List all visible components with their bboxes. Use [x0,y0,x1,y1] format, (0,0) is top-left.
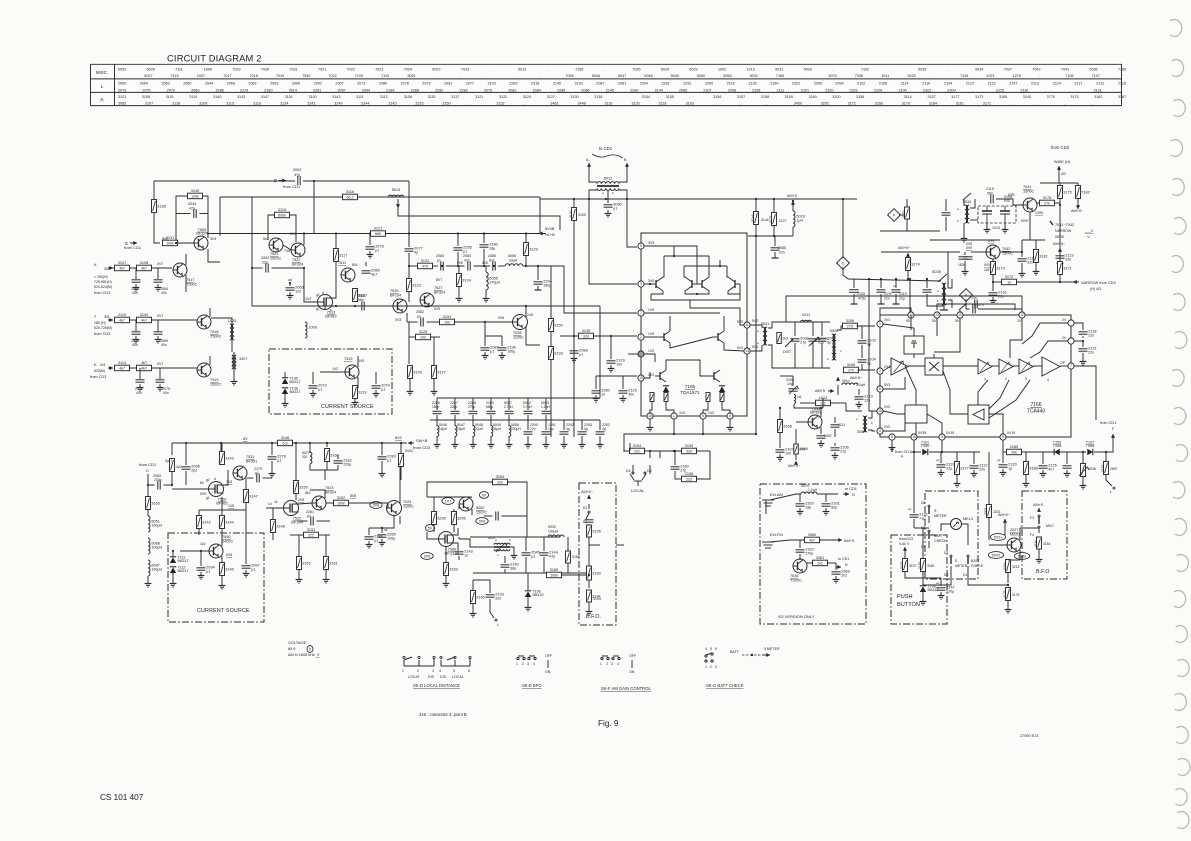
parts table frame [91,64,1122,105]
wire pin7 out [1074,366,1096,420]
svg-text:μ1: μ1 [374,539,378,543]
svg-text:3184: 3184 [1043,542,1051,546]
transformer 5012 [597,177,619,191]
inductor 5016 2.2uH [842,383,858,385]
resistor 1013 [816,396,831,406]
wire 2062 [252,267,263,269]
wire 7042 base [971,251,986,253]
svg-text:METER: METER [955,564,968,568]
wire ext am chain [765,500,767,514]
transistor 7511 BF324 [341,268,355,282]
junction node [313,180,315,182]
svg-text:3121: 3121 [118,95,126,99]
transformer 5025 [830,329,838,360]
svg-text:3100: 3100 [578,213,586,217]
svg-text:2116: 2116 [1020,88,1028,92]
svg-text:g1: g1 [206,496,210,500]
wire 7060 gate [427,532,438,539]
wire 3294 loop [427,482,493,497]
svg-text:2092: 2092 [314,82,322,86]
capacitor 2139 2n2 [486,593,504,601]
svg-text:2k2: 2k2 [634,449,640,453]
wire 3175 to 7041 [1059,210,1061,248]
switch 5034 arrow [963,193,971,200]
wire pushbutton feed [913,452,915,505]
svg-text:40n: 40n [136,391,142,395]
svg-text:7519: 7519 [210,378,218,382]
wire tca top loop caps [937,304,1015,310]
svg-text:Ext.FM: Ext.FM [770,532,783,537]
svg-text:3189: 3189 [550,568,558,572]
wire 2115 to 7041 [996,199,1023,205]
pin 14 hatched [638,351,644,357]
capacitor 2076 40n [139,368,141,379]
svg-text:3156: 3156 [846,319,854,323]
svg-text:2290: 2290 [630,88,638,92]
svg-text:.: . [489,67,490,71]
svg-text:AM+S: AM+S [844,539,855,543]
svg-text:D3: D3 [944,573,948,577]
svg-text:27p: 27p [800,341,806,345]
svg-text:3202: 3202 [821,102,829,106]
wire 7035 wiring [796,421,808,423]
wire diode row1 [911,451,921,453]
svg-text:BF194: BF194 [390,294,401,298]
resistor 3127 110 [432,366,446,379]
push button upper box [925,491,978,579]
svg-text:2104: 2104 [944,82,952,86]
bracket to CD1 [592,154,623,158]
svg-text:1502C: 1502C [476,511,487,515]
diamond near 756 [837,257,850,270]
resistor 3361 2k2 [813,556,828,566]
wire 5035 bottom gnd [943,305,945,310]
svg-text:330: 330 [686,449,692,453]
svg-text:1V9: 1V9 [648,308,654,312]
wire 7522 gate [266,507,283,509]
svg-text:2112: 2112 [1096,82,1104,86]
resistor 3145 [220,563,234,576]
svg-text:1n2: 1n2 [295,290,301,294]
svg-text:5056: 5056 [508,254,516,258]
svg-text:4g: 4g [602,427,606,431]
resistor 3180 [921,559,926,572]
svg-text:270p: 270p [805,552,813,556]
pin 4 tca [877,428,883,434]
svg-text:.: . [539,74,540,78]
svg-text:(H) 4/3: (H) 4/3 [1090,287,1101,291]
svg-text:3185: 3185 [999,95,1007,99]
capacitor 2097 u1 [242,564,260,572]
svg-text:100μ: 100μ [507,350,515,354]
resistor 3175 [1058,186,1072,199]
pin 13 [744,348,750,354]
wire pin13 to 5031 [750,345,762,351]
svg-text:1: 1 [600,662,602,666]
pin 7 [638,310,644,316]
svg-text:22p: 22p [262,261,268,265]
ground [155,336,162,343]
svg-text:BF982: BF982 [325,313,336,318]
svg-text:1: 1 [879,322,881,326]
pin 16 [647,413,653,419]
pin 6 tca [877,386,883,392]
svg-text:.: . [832,67,833,71]
svg-text:from CD3: from CD3 [1051,145,1070,150]
svg-text:27p: 27p [530,427,536,431]
svg-text:.: . [618,95,619,99]
ground [155,284,162,291]
svg-text:725-981(H): 725-981(H) [94,280,112,284]
svg-text:3360: 3360 [808,533,816,537]
svg-text:36μH: 36μH [493,427,502,431]
svg-text:2n2: 2n2 [495,597,501,601]
svg-text:4k7: 4k7 [141,318,147,322]
svg-text:7590: 7590 [222,535,230,539]
capacitor 2147 220u [937,586,955,594]
svg-text:0V5: 0V5 [200,492,206,496]
svg-text:3127: 3127 [547,95,555,99]
svg-text:+1μ: +1μ [919,517,925,521]
svg-text:fromCD3: fromCD3 [899,537,913,541]
svg-text:520(M): 520(M) [94,369,105,373]
svg-text:3179: 3179 [1003,590,1007,598]
svg-text:TDA1571: TDA1571 [680,390,700,395]
svg-text:39k: 39k [1011,450,1017,454]
wire local net [649,450,651,452]
wire emitter 7505 down [208,249,220,262]
transistor 7036 TS02C [793,559,807,573]
wire collector 7517 up [185,254,187,265]
svg-text:2μ2: 2μ2 [176,465,182,469]
wire 756 riser down [755,236,757,434]
svg-text:0V5: 0V5 [358,359,364,363]
svg-text:2322: 2322 [923,88,931,92]
svg-text:4: 4 [533,662,535,666]
svg-text:2044: 2044 [205,82,213,86]
capacitor 2094 u1 [197,566,215,574]
ground pin8 [891,440,893,444]
svg-text:31u6: 31u6 [761,218,769,222]
switch diagram SK-E [517,656,536,660]
svg-text:d: d [214,477,216,481]
svg-text:3159: 3159 [785,95,793,99]
svg-text:2V: 2V [1062,318,1067,322]
wire tca pin12 top link [1021,310,1023,312]
svg-text:CS 101 407: CS 101 407 [100,793,144,802]
svg-text:2067: 2067 [335,82,343,86]
svg-text:3126: 3126 [413,371,421,375]
resistor interior 1 [650,393,654,402]
svg-text:3151: 3151 [285,95,293,99]
svg-text:12: 12 [1020,313,1024,317]
svg-text:.: . [1118,102,1119,106]
svg-text:3129: 3129 [529,248,537,252]
resistor 3142 100k [197,516,211,529]
svg-text:3117: 3117 [451,95,459,99]
svg-text:5046: 5046 [592,74,600,78]
svg-text:SK-E BFO: SK-E BFO [522,683,542,688]
svg-text:VOLTAGE: VOLTAGE [288,640,307,645]
svg-text:2V2: 2V2 [884,405,890,409]
svg-text:8V2: 8V2 [395,436,402,440]
svg-text:LOCAL: LOCAL [631,488,645,493]
resistor 3156b 222 [682,472,697,482]
svg-text:.: . [547,67,548,71]
svg-text:3179: 3179 [902,102,910,106]
capacitor 2278 u1 [268,455,286,463]
svg-text:BATT: BATT [934,534,944,538]
svg-text:.: . [1010,102,1011,106]
wire 3156 to pin1 [857,325,876,327]
svg-text:3115: 3115 [428,95,436,99]
svg-text:F4: F4 [1030,533,1034,537]
svg-text:SK-F AM GAIN CONTROL: SK-F AM GAIN CONTROL [601,686,651,691]
transformer 5037 [494,543,510,551]
svg-text:3085: 3085 [778,246,786,250]
svg-text:2110: 2110 [899,292,907,296]
svg-text:μ1: μ1 [579,353,583,357]
wire pin10 osc [966,304,970,309]
inductor 5087 100uH [148,560,162,576]
svg-text:1V8: 1V8 [228,504,234,508]
svg-text:3147: 3147 [249,495,257,499]
wire row3 [130,367,137,369]
svg-text:3175: 3175 [1063,191,1071,195]
svg-text:3118: 3118 [659,102,667,106]
svg-text:7024: 7024 [404,67,412,71]
resistor 3215 [1006,560,1011,573]
svg-text:5013: 5013 [392,188,400,192]
svg-text:7028: 7028 [513,331,521,335]
capacitor 2126 [1063,466,1072,468]
svg-text:3: 3 [432,669,434,673]
svg-text:56.2: 56.2 [347,195,354,199]
diode 7101 TV80 [921,441,930,456]
capacitor 2110 22u [892,290,901,292]
transistor 7505 BF324 [194,227,209,250]
svg-text:8k2: 8k2 [305,491,311,495]
svg-text:0V9: 0V9 [479,519,486,523]
svg-text:2: 2 [417,669,419,673]
svg-text:μ1: μ1 [490,350,494,354]
svg-text:2080: 2080 [379,82,387,86]
svg-text:1V6: 1V6 [527,313,533,317]
svg-text:2073: 2073 [357,82,365,86]
capacitor 2105 470p [849,290,859,293]
resistor 3181 [1034,250,1048,263]
svg-text:3100: 3100 [309,95,317,99]
svg-text:3187: 3187 [1101,464,1105,472]
svg-text:3143: 3143 [225,457,233,461]
svg-text:7036: 7036 [855,74,863,78]
wire 5023 cluster [755,199,757,212]
wire diamond down to rail [843,268,848,280]
svg-text:.: . [434,74,435,78]
wire rail y306 gaps [335,305,337,307]
resistor 7182 [1076,186,1090,199]
transistor 7024 1100C [387,501,402,516]
svg-text:2076: 2076 [118,88,126,92]
svg-text:9: 9 [1002,435,1004,439]
diode 7136 BA317 [282,377,301,385]
wire TDA pin15 row [596,375,637,377]
wire emitter 7028 down [526,327,540,345]
svg-text:7527: 7527 [434,286,442,290]
svg-text:WIDE: WIDE [1055,235,1065,239]
svg-text:82p: 82p [831,506,837,510]
svg-text:BATT: BATT [730,650,740,654]
resistor 3126 27 [408,366,422,379]
svg-text:100k: 100k [550,573,558,577]
svg-text:· V: · V [1085,235,1090,239]
svg-text:DIST: DIST [783,350,792,354]
svg-text:from CD3: from CD3 [94,332,110,336]
wire collector 7518 [209,308,211,317]
svg-text:27k: 27k [1044,201,1050,205]
svg-text:40n: 40n [161,291,167,295]
svg-text:470: 470 [422,264,428,268]
svg-text:μ1: μ1 [277,459,281,463]
capacitor 2063 1n2 [289,283,291,286]
wire 7037 emitter right [1020,527,1039,529]
svg-text:O: O [842,261,845,265]
svg-text:ON: ON [545,670,551,674]
resistor 3115 600k [275,208,290,218]
svg-text:.: . [118,74,119,78]
wire collector 7519 [209,356,211,365]
svg-text:7033: 7033 [461,67,469,71]
svg-text:0V7: 0V7 [157,362,163,366]
svg-text:2105: 2105 [857,292,865,296]
svg-text:5058: 5058 [723,74,731,78]
svg-text:3146: 3146 [281,436,289,440]
svg-text:2082: 2082 [416,310,424,314]
transistor 7515 T500C [345,365,359,379]
pin 5 [638,243,644,249]
svg-text:5V: 5V [482,493,487,497]
svg-text:22n: 22n [1088,334,1094,338]
svg-text:to CD1: to CD1 [845,487,857,491]
wire bus y434 [624,434,756,452]
resistor 3116 56.2 [343,190,358,200]
svg-text:520-726(M): 520-726(M) [94,326,112,330]
svg-text:3177: 3177 [960,467,968,471]
inductor 5055 270uH [486,272,500,290]
svg-text:3171: 3171 [1063,267,1071,271]
svg-text:3157: 3157 [928,95,936,99]
wire bfo out [588,574,590,576]
svg-text:3182: 3182 [1094,95,1102,99]
svg-text:.: . [889,67,890,71]
label ovals 7037 [990,534,1005,541]
svg-text:D6: D6 [647,469,652,473]
svg-text:5V2: 5V2 [752,319,758,323]
transistor interior T-b [691,280,693,288]
wire right top rail y240 [1022,239,1045,241]
svg-text:10k: 10k [444,320,450,324]
svg-text:3: 3 [640,282,642,286]
wire base 7505 [178,242,195,244]
diode 7108 BA317 [920,585,939,593]
svg-text:BA317: BA317 [290,390,301,394]
inductor 1011 [801,313,812,322]
wire 3189 to BFO [562,574,590,576]
wire am5 node [837,385,839,395]
svg-text:21%: 21% [884,292,892,296]
wire top rail y181 [154,180,295,182]
wire 3215 net [1007,559,1009,562]
wire 7060 drain source [453,528,458,535]
svg-text:4/2: 4/2 [1061,172,1066,176]
resistor 3110 4k7 [137,313,152,323]
svg-text:oa: oa [288,278,292,282]
svg-text:182n: 182n [958,263,966,267]
inductor 5032 100uH [548,535,564,537]
svg-text:7517: 7517 [186,278,194,282]
resistor 3162 [905,207,910,219]
transistor 7035 BF324 [808,406,823,429]
wire 3115 loop [268,215,275,240]
svg-text:to CD1: to CD1 [599,146,613,151]
resistor 2095 0u47 [170,459,175,472]
svg-text:2282: 2282 [435,88,443,92]
svg-text:3108: 3108 [404,95,412,99]
wire 5031 secondary [768,322,779,328]
svg-text:2156: 2156 [685,472,693,476]
resistor 3188 270k [566,551,571,563]
label 2V6 [370,502,382,509]
ground [287,292,294,299]
svg-text:7042: 7042 [1002,247,1010,251]
pin 2 tca [877,368,883,374]
svg-text:4k7: 4k7 [119,366,125,370]
svg-text:3124: 3124 [462,279,470,283]
svg-text:1μ: 1μ [1008,467,1012,471]
svg-text:270p: 270p [468,405,476,409]
svg-text:.: . [523,102,524,106]
svg-text:1e5: 1e5 [984,268,990,272]
svg-text:2144: 2144 [655,88,663,92]
svg-text:.: . [469,102,470,106]
pin 8 [700,413,706,419]
ext am stub lines [762,500,774,506]
svg-text:5025: 5025 [908,74,916,78]
svg-text:0V97: 0V97 [992,553,1001,557]
svg-text:TV88: TV88 [1053,444,1062,448]
capacitor 2044 47p [194,209,196,218]
wire diodes [284,372,286,378]
svg-text:3152: 3152 [337,496,345,500]
trimmer arrow 5037 [496,543,507,552]
svg-text:3115: 3115 [226,102,234,106]
arrow A [588,163,590,176]
wire wide node [1058,172,1060,183]
switch 5035 arrow [938,274,947,282]
svg-text:5V: 5V [955,319,960,323]
svg-text:3138: 3138 [157,205,165,209]
svg-text:AM+S: AM+S [1033,503,1044,507]
resistor 3184 [1037,537,1042,549]
svg-text:5050: 5050 [697,74,705,78]
svg-text:3156: 3156 [713,95,721,99]
svg-text:3180: 3180 [927,564,935,568]
svg-text:3109: 3109 [140,313,148,317]
svg-text:.: . [460,74,461,78]
svg-text:3/5: 3/5 [104,315,109,319]
svg-text:3138: 3138 [594,95,602,99]
wire bfo out stub [616,544,624,546]
